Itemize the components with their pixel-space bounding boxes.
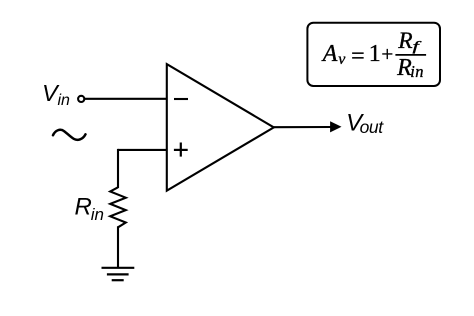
- svg-text:in: in: [91, 205, 104, 224]
- svg-text:+: +: [381, 42, 393, 66]
- node Vout label: [346, 109, 384, 136]
- svg-text:R: R: [75, 193, 92, 220]
- op-amp non-inverting input plus sign: [174, 143, 188, 157]
- wire Vin to op-amp inverting input: [85, 98, 167, 100]
- svg-text:v: v: [338, 51, 346, 68]
- wire vertical down to resistor: [117, 149, 119, 188]
- wire non-inverting input horizontal: [118, 149, 167, 151]
- wire resistor to ground: [117, 226, 119, 267]
- ac source sine symbol: [53, 130, 86, 140]
- formula fraction bar: [395, 54, 426, 56]
- node Vin terminal: [78, 96, 84, 102]
- op-amp inverting input minus sign: [174, 98, 188, 100]
- svg-text:1: 1: [369, 41, 381, 67]
- output arrowhead: [330, 121, 341, 132]
- node Vin label: [42, 80, 70, 109]
- wire output: [274, 126, 331, 128]
- svg-text:R: R: [397, 28, 412, 54]
- resistor Rin: [110, 187, 126, 227]
- svg-text:=: =: [351, 43, 365, 69]
- svg-text:out: out: [360, 117, 385, 137]
- resistor Rin label: [75, 193, 104, 224]
- svg-text:in: in: [410, 62, 424, 81]
- svg-text:A: A: [321, 41, 338, 67]
- formula Av = 1 + Rf/Rin: [321, 28, 424, 81]
- ground: [102, 268, 135, 280]
- svg-text:in: in: [58, 92, 71, 109]
- op-amp U1: [167, 64, 274, 191]
- formula box gain equation border: [307, 23, 440, 86]
